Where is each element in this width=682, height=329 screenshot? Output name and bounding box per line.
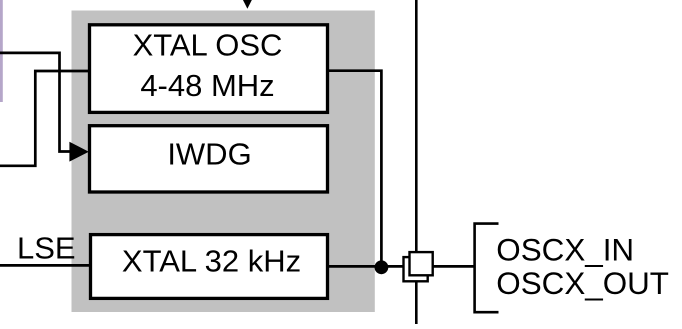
svg-text:XTAL OSC: XTAL OSC xyxy=(133,28,283,63)
gray clock-block region xyxy=(72,11,375,313)
svg-text:IWDG: IWDG xyxy=(167,137,251,172)
wire (XTAL 32 kHz output to pad and bracket) xyxy=(329,265,475,268)
svg-text:OSCX_OUT: OSCX_OUT xyxy=(496,266,669,301)
wire (vertical bus line right side) xyxy=(415,0,418,324)
wire (XTAL OSC output down to node) xyxy=(329,71,381,268)
box XTAL OSC 4-48 MHz xyxy=(90,25,328,113)
svg-text:LSE: LSE xyxy=(17,230,76,265)
wire LSE input xyxy=(0,264,92,267)
wire (left input to XTAL OSC) xyxy=(0,71,89,166)
svg-text:XTAL 32 kHz: XTAL 32 kHz xyxy=(122,243,301,278)
junction dot node xyxy=(375,260,389,274)
arrowhead into IWDG xyxy=(69,142,88,162)
node LSE left edge marker (lavender line) xyxy=(0,0,3,102)
box IWDG xyxy=(90,126,328,192)
pad symbol back square xyxy=(404,257,428,281)
pad symbol front square xyxy=(410,252,433,275)
wire (left input to IWDG) xyxy=(0,53,72,152)
box XTAL 32 kHz xyxy=(91,235,328,299)
svg-text:4-48 MHz: 4-48 MHz xyxy=(140,68,274,103)
svg-text:OSCX_IN: OSCX_IN xyxy=(496,232,634,267)
bracket for pin names xyxy=(475,224,499,313)
wire (top arrow into gray block) xyxy=(241,0,254,9)
